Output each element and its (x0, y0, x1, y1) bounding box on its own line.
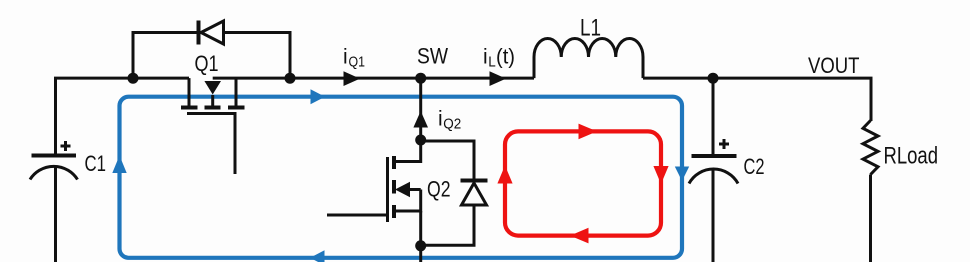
node: D1 cathode junction (285, 73, 296, 84)
svg-text:i: i (438, 108, 443, 131)
transistor Q2 (327, 140, 421, 222)
node: D1 anode junction (128, 73, 139, 84)
wire: SW rail from Q1 source to inductor (213, 77, 534, 80)
svg-text:VOUT: VOUT (808, 53, 860, 78)
svg-text:L: L (488, 54, 496, 71)
svg-text:i: i (483, 46, 488, 69)
current arrow iQ2 (413, 111, 428, 128)
inductor L1 (534, 38, 643, 78)
diode D1 loop wires (133, 33, 290, 79)
current arrow iL(t) (490, 71, 507, 86)
resistor RLoad (863, 121, 878, 175)
wire: SW node to Q2 drain (419, 78, 422, 140)
svg-text:C1: C1 (85, 151, 107, 176)
svg-text:Q2: Q2 (427, 177, 451, 202)
svg-text:L1: L1 (580, 15, 601, 42)
svg-text:Q1: Q1 (195, 51, 219, 76)
diode D1 (199, 21, 224, 45)
node SW (415, 73, 426, 84)
svg-text:Q1: Q1 (349, 54, 366, 71)
svg-text:i: i (343, 46, 348, 69)
svg-text:(t): (t) (496, 46, 515, 69)
diode D2 (461, 181, 488, 206)
wire: body diode D2 branch (421, 141, 474, 245)
wire: input rail C1 top to Q1 drain (56, 78, 190, 155)
node: Q2 drain junction (415, 135, 426, 146)
current arrow iQ1 (344, 71, 361, 86)
wire: C1 bottom lead (54, 167, 57, 262)
svg-text:C2: C2 (744, 154, 765, 179)
blue current loop (112, 89, 689, 262)
node: Q2 source junction (415, 240, 426, 251)
capacitor C1 (30, 141, 78, 180)
transistor Q1 (181, 78, 245, 174)
wire: Q2 source to bottom (419, 211, 422, 262)
red current loop (497, 124, 668, 244)
node: C2 junction (708, 73, 719, 84)
wire: C2 top lead (712, 78, 715, 155)
svg-text:Q2: Q2 (443, 116, 461, 133)
capacitor C2 (689, 139, 738, 184)
svg-text:RLoad: RLoad (884, 143, 939, 170)
wire: VOUT rail (643, 78, 871, 121)
svg-text:SW: SW (417, 44, 449, 69)
